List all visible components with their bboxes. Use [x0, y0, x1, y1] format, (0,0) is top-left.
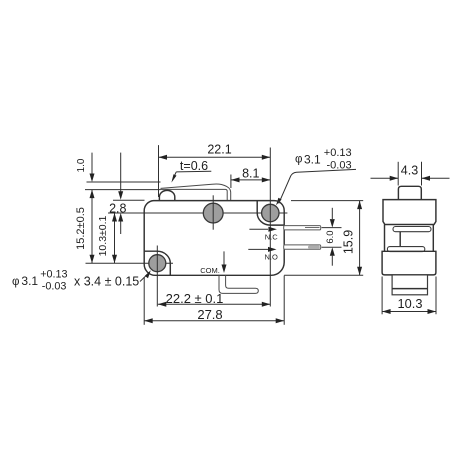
side view middle section sides — [385, 225, 434, 252]
side view base — [392, 275, 427, 295]
svg-text:22.2 ± 0.1: 22.2 ± 0.1 — [166, 291, 224, 306]
lever wedge — [161, 184, 231, 201]
extension line body top to side view — [291, 200, 363, 202]
terminal N.O — [284, 245, 321, 249]
hinge bump — [159, 190, 174, 201]
dimension 27.8 — [144, 307, 284, 323]
svg-text:N.C: N.C — [265, 232, 279, 241]
dimension 4.3 — [371, 162, 450, 186]
svg-text:27.8: 27.8 — [197, 307, 222, 322]
svg-text:6.0: 6.0 — [325, 230, 336, 243]
extension line lever bottom level — [85, 189, 161, 191]
extension line body right edge (bottom) — [283, 276, 285, 325]
extension line bottom hole centerline (left) — [86, 262, 174, 264]
dimension 8.1 — [231, 166, 270, 188]
svg-text:+0.13: +0.13 — [40, 269, 67, 281]
svg-text:10.3±0.1: 10.3±0.1 — [97, 215, 109, 256]
svg-text:8.1: 8.1 — [242, 166, 259, 180]
switch body outline — [144, 201, 284, 276]
callout phi 3.1 x 3.4 (bottom left hole) — [12, 269, 151, 293]
plunger circle — [203, 195, 223, 229]
dimension 15.2 +/- 0.5 — [75, 190, 95, 264]
svg-text:+0.13: +0.13 — [324, 147, 352, 159]
mounting hole top-right — [262, 148, 279, 307]
svg-text:3.1: 3.1 — [304, 152, 321, 166]
side view terminal bar N.C — [393, 227, 431, 232]
dimension 22.2 +/- 0.1 — [158, 291, 270, 307]
svg-text:3.1: 3.1 — [21, 274, 38, 288]
dimension 10.3 (side view) — [382, 277, 436, 315]
callout phi 3.1 +0.13/-0.03 (top right hole) — [276, 147, 356, 205]
terminal COM (bent) — [219, 275, 258, 293]
dimension 1.0 — [76, 153, 95, 182]
side view upper block — [383, 200, 436, 225]
svg-text:φ: φ — [12, 276, 19, 288]
svg-text:t=0.6: t=0.6 — [180, 159, 208, 173]
dimension 10.3 +/- 0.1 — [97, 213, 117, 263]
svg-text:COM.: COM. — [200, 266, 220, 275]
extension line top holes centerline (left) — [108, 212, 287, 214]
dimension 2.8 — [109, 153, 126, 234]
svg-text:15.9: 15.9 — [342, 230, 356, 254]
mounting hole bottom-left — [149, 246, 166, 307]
svg-text:N.O: N.O — [265, 253, 279, 262]
svg-text:x 3.4 ± 0.15: x 3.4 ± 0.15 — [74, 274, 139, 288]
svg-text:-0.03: -0.03 — [42, 280, 67, 292]
label COM with arrow — [200, 251, 226, 275]
extension line body top (left) — [113, 199, 145, 201]
svg-text:22.1: 22.1 — [207, 143, 231, 157]
extension line body left edge (bottom) — [143, 277, 145, 325]
terminal N.C — [284, 226, 321, 230]
svg-text:φ: φ — [295, 154, 302, 166]
svg-text:10.3: 10.3 — [398, 296, 423, 311]
svg-text:1.0: 1.0 — [76, 158, 87, 172]
dimension 6.0 — [322, 208, 342, 266]
inner corner line bottom-left — [144, 251, 170, 275]
dimension 15.9 — [342, 201, 363, 276]
leader t=0.6 — [171, 159, 211, 183]
side view button — [398, 186, 421, 199]
extension line lever top level — [87, 181, 161, 183]
extension line body bottom to side view — [284, 274, 363, 276]
svg-text:4.3: 4.3 — [401, 164, 418, 178]
inner corner line top-right — [257, 201, 284, 226]
label N.O with arrow — [248, 247, 278, 262]
label N.C with arrow — [249, 227, 278, 242]
side view contact column — [399, 232, 401, 247]
svg-text:15.2±0.5: 15.2±0.5 — [75, 207, 87, 250]
side view terminal bar N.O — [387, 247, 424, 252]
dimension 22.1 — [159, 143, 271, 198]
side view lower block — [382, 251, 436, 275]
